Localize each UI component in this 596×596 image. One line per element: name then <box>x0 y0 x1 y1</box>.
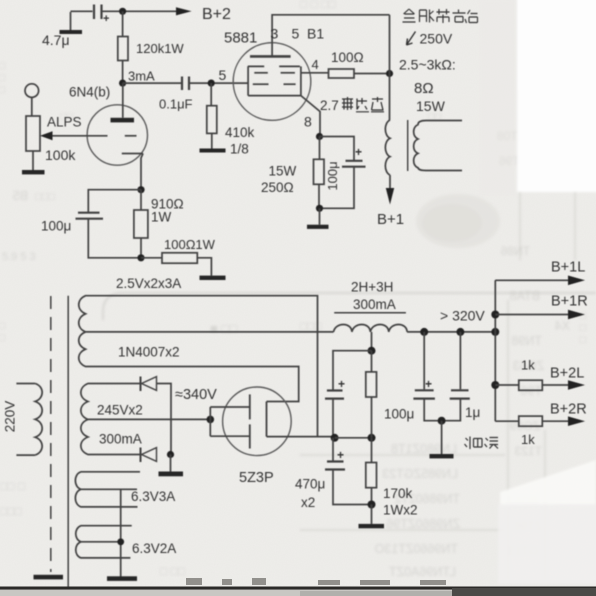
5Z3P filament bar <box>266 402 268 437</box>
svg-text:250Ω: 250Ω <box>261 180 294 195</box>
wire 2.5V top tap <box>95 296 318 437</box>
choke tap <box>371 332 373 351</box>
svg-text:0.1μF: 0.1μF <box>159 97 193 112</box>
5881 cathode line <box>248 95 301 97</box>
resistor 100R (screen) <box>329 69 390 78</box>
node caps midpoint <box>331 434 339 442</box>
resistor 170k lower <box>366 438 377 505</box>
node B+2 <box>119 8 126 15</box>
ground (top-left, 4.7u cap) <box>60 12 83 34</box>
wire <box>71 10 93 12</box>
svg-text:470μ: 470μ <box>295 477 325 492</box>
wire 2.5V centre tap to choke <box>95 331 334 333</box>
5881 beam box right <box>300 66 302 95</box>
svg-text:B+2L: B+2L <box>550 366 584 382</box>
5881 cathode lead pin8 <box>301 96 320 137</box>
svg-text:15W: 15W <box>269 164 297 179</box>
node B+ rail / 100R <box>386 70 393 77</box>
OPT primary winding <box>385 120 390 175</box>
capacitor 1u oil <box>442 332 470 421</box>
5881 plate bar <box>250 55 291 58</box>
resistor 250R 15W <box>314 137 325 209</box>
svg-text:4.7μ: 4.7μ <box>42 32 70 48</box>
label youjin (oil immersed) <box>465 437 499 450</box>
svg-text:1N4007x2: 1N4007x2 <box>118 345 180 360</box>
wire 245V bottom tap <box>95 454 140 456</box>
ground (100R) <box>200 276 226 280</box>
svg-text:LTN96A0ZT: LTN96A0ZT <box>388 565 456 579</box>
arrow B+1 <box>386 188 394 205</box>
secondary 245Vx2 winding <box>81 384 95 455</box>
secondary 6.3V3A winding <box>75 472 140 507</box>
B+ distribution rail <box>494 280 496 421</box>
svg-text:B+2R: B+2R <box>550 402 587 418</box>
page bottom edge gray strip <box>0 590 596 596</box>
5Z3P filament bottom lead <box>267 436 335 438</box>
arrow B+1L <box>568 276 585 286</box>
svg-text:□□: □□ <box>0 320 8 344</box>
svg-text:100μ: 100μ <box>325 161 340 190</box>
ground (pot) <box>22 151 45 174</box>
svg-text:100k: 100k <box>45 147 76 163</box>
svg-text:1k: 1k <box>521 358 535 373</box>
svg-text:LN980Z1T8: LN980Z1T8 <box>391 442 457 456</box>
tube 5Z3P envelope <box>223 387 292 456</box>
node grid 5881 <box>208 80 215 87</box>
OPT core <box>407 120 409 171</box>
page bottom edge dark line <box>0 587 596 590</box>
wire <box>102 10 177 12</box>
node cathode bottom <box>137 254 144 261</box>
node pin8 <box>316 133 323 140</box>
transformer shield line <box>67 296 69 588</box>
ground (filter) <box>359 505 385 529</box>
svg-text:ALPS: ALPS <box>47 115 82 130</box>
node cathode 6N4 <box>137 186 144 193</box>
6N4 grid <box>52 135 137 137</box>
capacitor 0.1uF <box>182 77 189 91</box>
5881 screen dashes <box>248 65 300 67</box>
wire <box>320 167 355 209</box>
ground (diode common) <box>159 455 184 477</box>
secondary 6.3V2A winding <box>76 526 132 558</box>
svg-text:B+1: B+1 <box>377 211 404 228</box>
darker column near page edge <box>480 0 516 195</box>
svg-text:+: + <box>337 448 344 462</box>
capacitor 100u (filter) <box>413 332 441 421</box>
dark dashes above bottom edge <box>186 578 446 585</box>
svg-text:□□□: □□□ <box>0 60 8 96</box>
svg-text:15W: 15W <box>416 98 446 114</box>
svg-text:□□ □: □□ □ <box>0 479 25 493</box>
svg-text:TN86: TN86 <box>500 244 530 258</box>
white/gray page corner bottom-right <box>498 460 596 584</box>
node B+ rail right <box>491 328 499 336</box>
transformer core dashed line <box>50 296 52 572</box>
svg-text:1μ: 1μ <box>465 405 480 420</box>
choke core bar <box>334 312 406 314</box>
ground (heater CT) <box>107 576 137 581</box>
resistor 120k1W <box>118 11 128 83</box>
svg-text:LN985ZGT23: LN985ZGT23 <box>382 467 458 481</box>
svg-text:TN98: TN98 <box>511 334 542 348</box>
svg-text:x2: x2 <box>301 495 315 510</box>
node B+2L <box>491 381 499 389</box>
bleed-through faint table lines <box>300 60 575 580</box>
input terminal <box>25 84 39 116</box>
B+ rail down to OPT <box>389 15 391 120</box>
svg-text:6.3V3A: 6.3V3A <box>131 489 175 504</box>
wire diode top to common <box>157 384 172 455</box>
arrow B+2 <box>176 7 192 15</box>
svg-text:300mA: 300mA <box>99 432 142 447</box>
capacitor 470u (upper) <box>325 391 344 399</box>
svg-text:2H+3H: 2H+3H <box>351 280 393 295</box>
svg-text:8Ω: 8Ω <box>414 80 434 97</box>
node 3mA <box>119 80 126 87</box>
svg-text:2.7: 2.7 <box>320 98 339 113</box>
5881 beam box left <box>247 66 249 95</box>
choke 2H+3H winding <box>334 324 408 331</box>
primary winding 220V <box>16 384 42 456</box>
wire <box>335 437 372 439</box>
wire <box>332 399 334 438</box>
svg-text:410k: 410k <box>225 125 255 140</box>
svg-text:8: 8 <box>304 114 312 130</box>
svg-text:+: + <box>425 377 432 391</box>
5Z3P plate bars <box>249 394 251 448</box>
secondary 2.5Vx2x3A winding <box>79 296 95 367</box>
white page corner top-right <box>517 0 596 192</box>
ground (core) <box>34 575 64 580</box>
label 2.7 jiao dengsi (filament pins) <box>320 97 384 113</box>
resistor 170k upper <box>366 351 377 438</box>
wire <box>123 82 181 84</box>
capacitor 100u (5881 cathode) <box>342 161 366 167</box>
svg-text:1/8: 1/8 <box>230 142 249 157</box>
resistor 1k (B+2R) <box>495 416 568 426</box>
arrow B+2L <box>568 380 585 390</box>
5881 pin4 lead <box>301 72 329 74</box>
svg-text:BTA8: BTA8 <box>510 289 540 303</box>
node cathode bottom 5881 <box>316 205 323 212</box>
potentiometer ALPS 100k <box>26 116 53 151</box>
svg-text:300mA: 300mA <box>353 297 396 312</box>
svg-text:5881: 5881 <box>224 30 257 47</box>
svg-text:+: + <box>355 145 362 159</box>
wire <box>333 438 372 505</box>
svg-text:B5: B5 <box>13 189 28 203</box>
svg-text:170k: 170k <box>383 486 413 501</box>
ground (5881 cathode) <box>307 208 329 229</box>
svg-text:X4: X4 <box>555 319 570 333</box>
5Z3P plate leads <box>210 407 249 436</box>
arrow B+1R <box>568 310 585 320</box>
ground (410k) <box>200 149 226 153</box>
svg-text:1k: 1k <box>521 432 535 447</box>
diode 1N4007 (top) <box>141 377 157 392</box>
resistor 410k <box>207 83 217 148</box>
node bottom <box>368 501 376 509</box>
node B+1R <box>491 311 499 319</box>
node 6.3V2A centre tap <box>117 538 124 545</box>
svg-text:2.5~3kΩ:: 2.5~3kΩ: <box>399 57 456 73</box>
wire to B+1 <box>389 175 391 189</box>
wire 245V centre tap to 5Z3P <box>95 418 210 420</box>
svg-text:+: + <box>338 377 345 391</box>
svg-text:2.5Vx2x3A: 2.5Vx2x3A <box>116 276 181 291</box>
capacitor 100u (6N4 cathode) <box>76 213 104 219</box>
5881 grid dashes <box>253 73 296 84</box>
svg-text:□ □□: □ □□ <box>160 564 185 578</box>
svg-text:3mA: 3mA <box>128 69 155 84</box>
dark block bottom right <box>452 588 596 596</box>
svg-text:4: 4 <box>312 57 319 72</box>
wire B+1R <box>495 314 568 316</box>
node choke tap <box>368 347 376 355</box>
svg-text:1Wx2: 1Wx2 <box>383 503 418 518</box>
resistor 1k (B+2L) <box>495 380 568 390</box>
svg-text:TN9660ZT13O: TN9660ZT13O <box>374 542 458 556</box>
arrow B+2R <box>568 416 585 426</box>
svg-text:6.3V2A: 6.3V2A <box>132 541 176 556</box>
svg-text:B1: B1 <box>307 26 324 42</box>
svg-text:6N4(b): 6N4(b) <box>69 85 110 100</box>
svg-text:□□□: □□□ <box>0 504 22 518</box>
6N4 plate <box>111 83 135 122</box>
tube 5881 envelope <box>233 43 311 121</box>
node 100u <box>420 328 428 336</box>
svg-text:245Vx2: 245Vx2 <box>97 403 143 418</box>
capacitor C 4.7u <box>94 5 102 20</box>
svg-text:220V: 220V <box>3 401 18 433</box>
wire <box>88 190 141 212</box>
wire 2.5V bottom tap to 5Z3P filament <box>95 367 299 402</box>
tube 6N4 envelope <box>87 105 147 165</box>
svg-text:■ □□: ■ □□ <box>210 321 237 336</box>
svg-text:120k1W: 120k1W <box>136 41 184 56</box>
svg-text:□□□: □□□ <box>300 319 322 333</box>
node filter caps ground <box>438 417 446 425</box>
wire <box>88 219 141 258</box>
node 340V <box>207 416 215 424</box>
svg-text:100μ: 100μ <box>384 407 414 422</box>
wire 245V top tap <box>95 383 140 385</box>
wire <box>320 137 355 161</box>
svg-text:5: 5 <box>292 26 300 42</box>
svg-text:≈340V: ≈340V <box>175 387 217 403</box>
svg-text:250V: 250V <box>420 31 453 47</box>
svg-text:5Z3P: 5Z3P <box>239 470 274 486</box>
ground (filter caps) <box>430 421 454 459</box>
svg-text:ZN9860ZT96: ZN9860ZT96 <box>386 517 460 531</box>
diode 1N4007 (bottom) <box>141 448 157 463</box>
node diode common <box>167 451 174 458</box>
node 170k midpoint <box>368 434 376 442</box>
svg-text:5.9 5 3: 5.9 5 3 <box>2 251 36 263</box>
node 1u <box>456 328 464 336</box>
svg-text:B+1L: B+1L <box>551 260 585 276</box>
capacitor 470u (lower) <box>325 462 345 470</box>
note quanbu daizai hou (after full load) <box>403 9 478 23</box>
6N4 cathode <box>122 154 143 190</box>
wire B+1L <box>495 279 568 281</box>
svg-text:□□□: □□□ <box>35 191 55 203</box>
svg-text:100Ω1W: 100Ω1W <box>164 237 216 252</box>
svg-text:B+2: B+2 <box>202 6 231 23</box>
resistor 910R 1W <box>134 190 148 258</box>
wire pin3 to B+ rail <box>272 15 389 57</box>
wire <box>189 82 248 84</box>
svg-text:+: + <box>103 13 109 25</box>
bleed-through table border <box>103 293 596 320</box>
svg-text:5: 5 <box>219 67 227 83</box>
svg-text:□ □ □□: □ □ □□ <box>300 0 336 11</box>
svg-text:100μ: 100μ <box>41 219 71 234</box>
svg-text:1W: 1W <box>151 210 172 225</box>
wire tap to 470u <box>333 351 372 390</box>
bleed-through stamp blob <box>416 194 500 248</box>
svg-text:> 320V: > 320V <box>440 308 485 324</box>
OPT secondary winding <box>414 121 462 171</box>
svg-text:100Ω: 100Ω <box>331 50 364 65</box>
wire choke to B+ rail <box>407 331 495 333</box>
svg-text:3: 3 <box>271 26 279 42</box>
wire heater centre taps to ground <box>120 489 122 576</box>
svg-text:B+1R: B+1R <box>551 294 588 310</box>
resistor 100R 1W <box>141 253 211 276</box>
arrow to 250V <box>407 32 416 46</box>
